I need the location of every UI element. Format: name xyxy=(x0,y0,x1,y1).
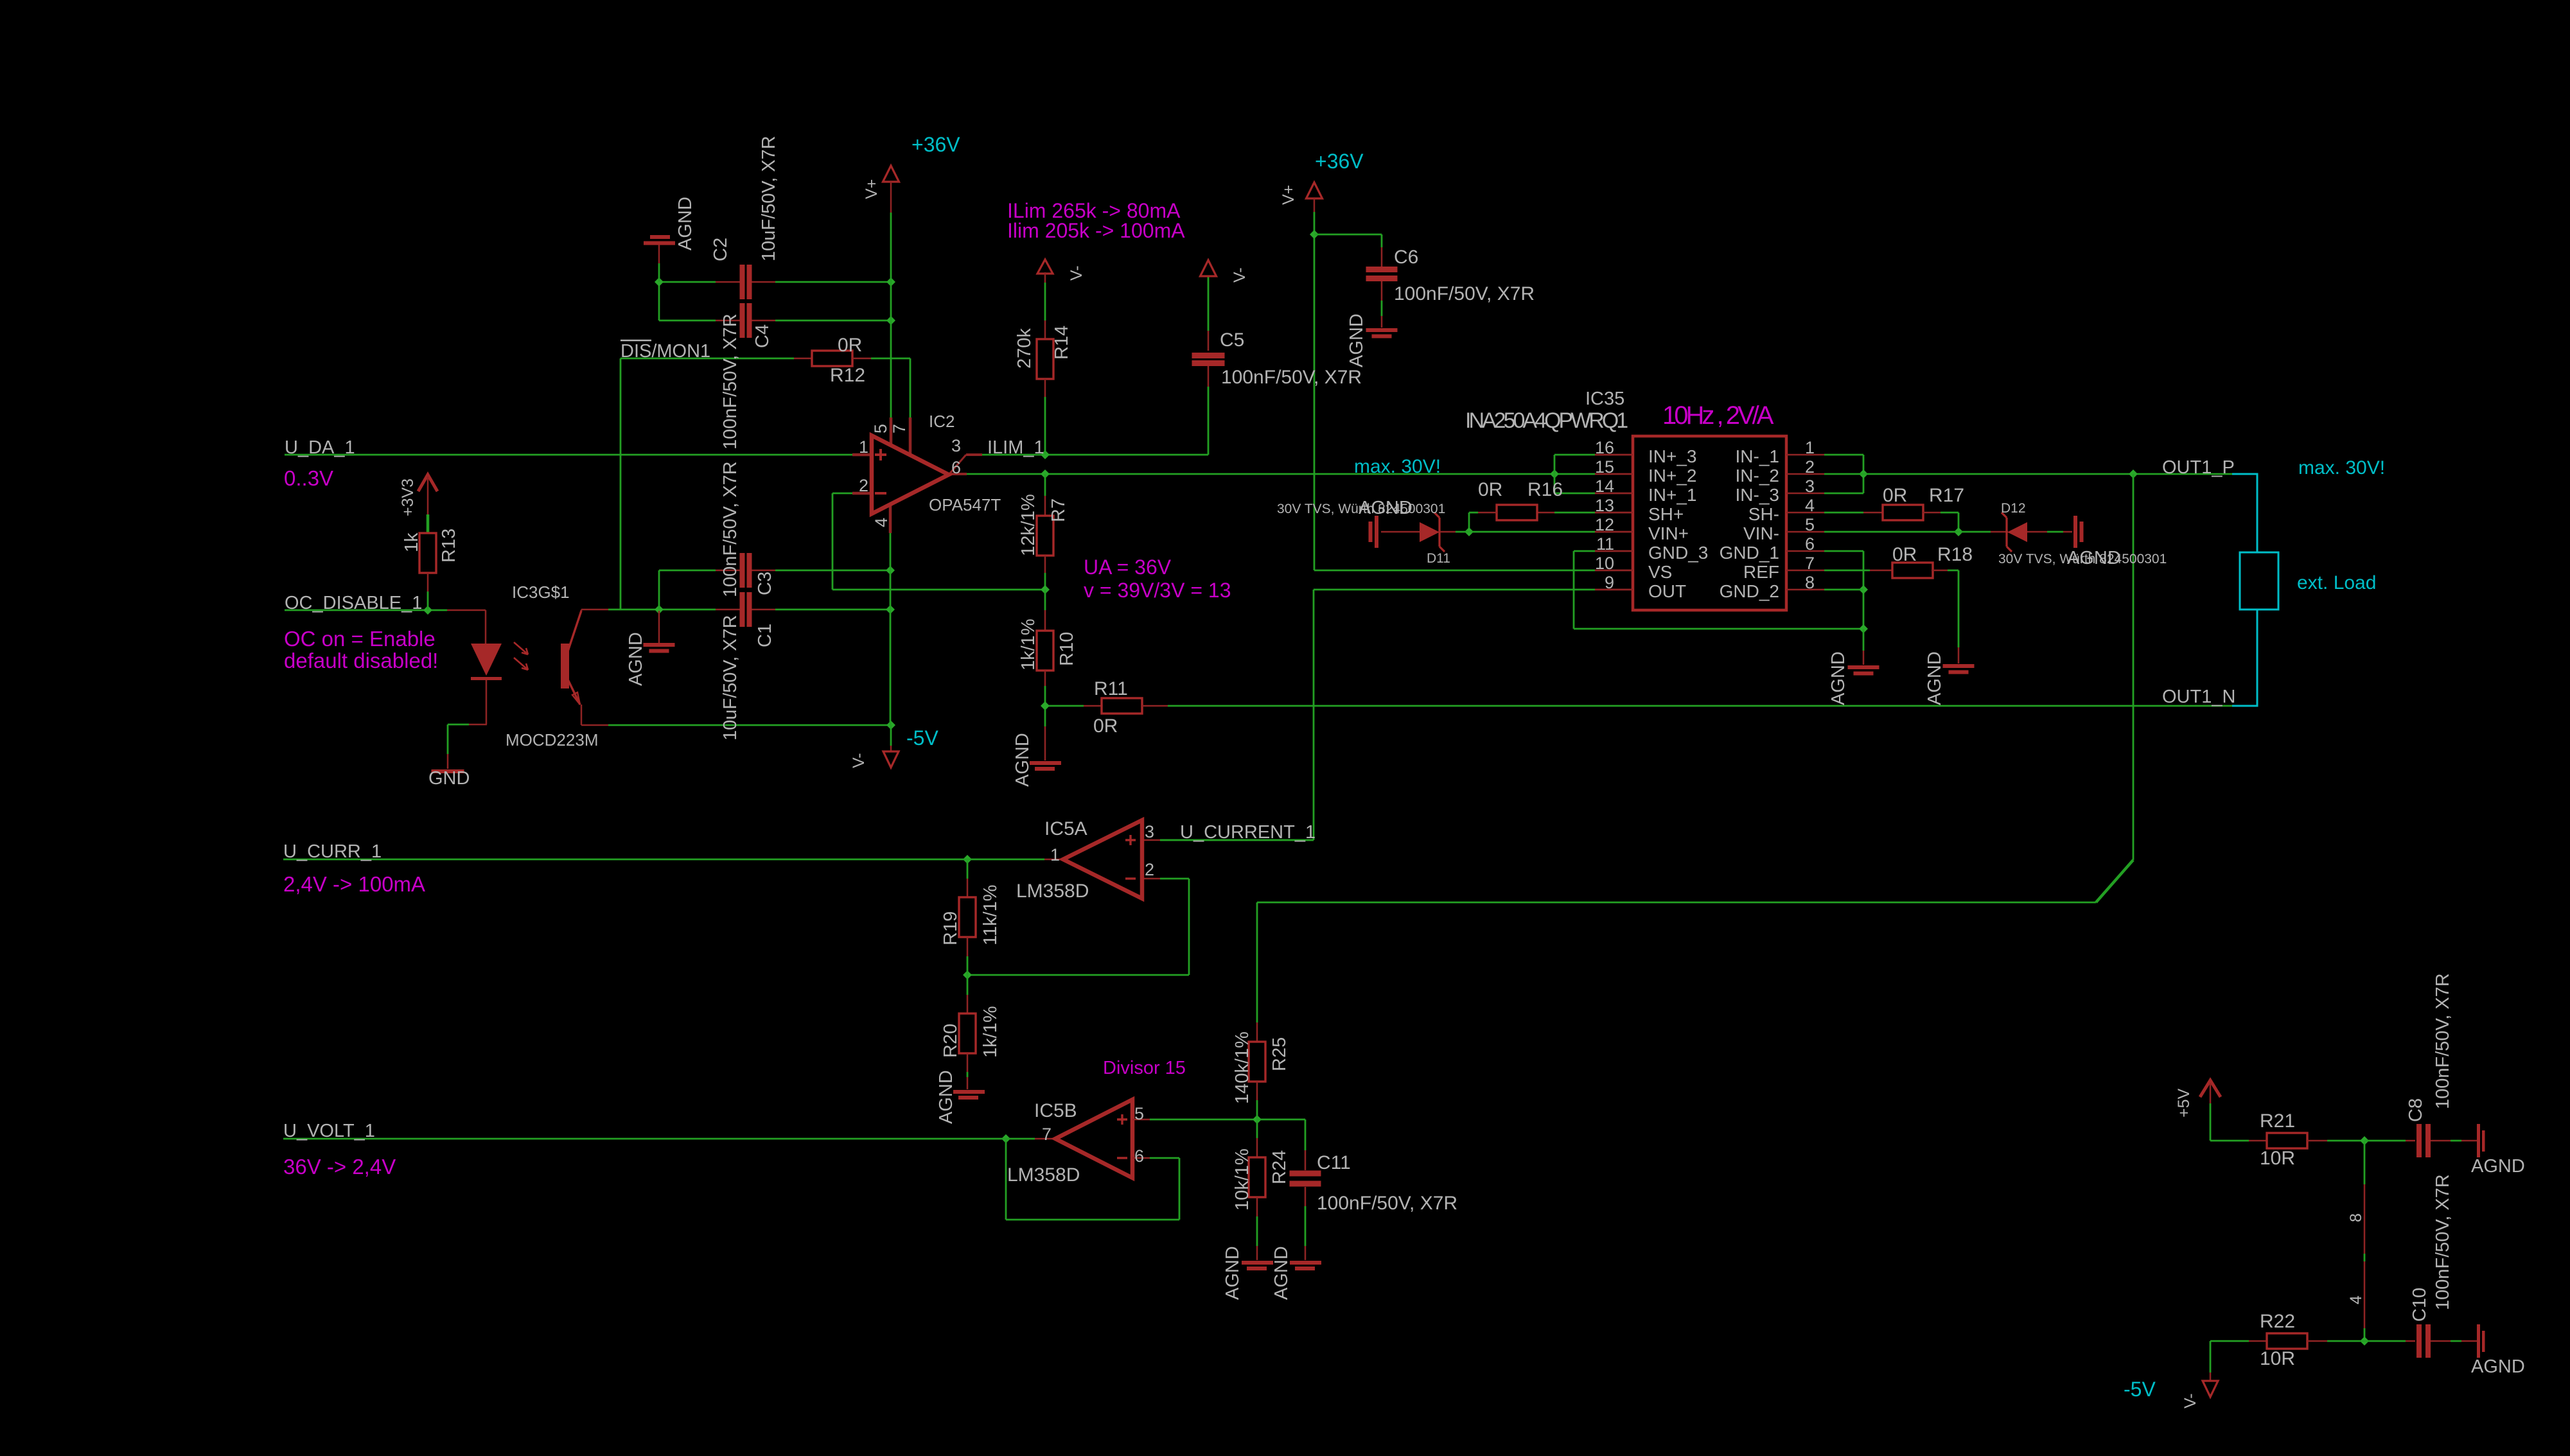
svg-text:R21: R21 xyxy=(2260,1110,2295,1132)
svg-text:IN-_3: IN-_3 xyxy=(1736,485,1779,505)
svg-text:3: 3 xyxy=(1805,477,1815,496)
svg-text:AGND: AGND xyxy=(2067,548,2121,568)
svg-text:1k/1%: 1k/1% xyxy=(980,1006,1001,1058)
svg-text:100nF/50V, X7R: 100nF/50V, X7R xyxy=(2433,1174,2453,1310)
svg-text:9: 9 xyxy=(1605,573,1614,592)
svg-text:R10: R10 xyxy=(1057,632,1077,666)
svg-text:15: 15 xyxy=(1595,457,1614,477)
svg-text:1: 1 xyxy=(859,437,868,457)
svg-text:100nF/50V, X7R: 100nF/50V, X7R xyxy=(720,461,741,597)
svg-text:14: 14 xyxy=(1595,477,1614,496)
svg-text:IN-_1: IN-_1 xyxy=(1736,446,1779,466)
svg-text:LM358D: LM358D xyxy=(1007,1164,1080,1186)
svg-text:V-: V- xyxy=(1068,265,1086,281)
svg-text:AGND: AGND xyxy=(1359,498,1413,518)
svg-text:1k/1%: 1k/1% xyxy=(1018,618,1039,671)
svg-text:-5V: -5V xyxy=(2124,1378,2156,1401)
svg-text:100nF/50V, X7R: 100nF/50V, X7R xyxy=(1221,367,1362,388)
svg-text:C6: C6 xyxy=(1394,247,1418,268)
svg-text:R25: R25 xyxy=(1269,1037,1290,1071)
svg-text:V-: V- xyxy=(1231,267,1249,283)
svg-text:0R: 0R xyxy=(1093,715,1118,737)
svg-text:10uF/50V, X7R: 10uF/50V, X7R xyxy=(720,615,741,741)
svg-text:OUT: OUT xyxy=(1648,581,1686,601)
svg-text:SH+: SH+ xyxy=(1648,504,1684,524)
svg-text:11k/1%: 11k/1% xyxy=(980,884,1001,945)
svg-text:U_DA_1: U_DA_1 xyxy=(285,437,355,458)
svg-text:36V -> 2,4V: 36V -> 2,4V xyxy=(283,1155,396,1179)
svg-text:1: 1 xyxy=(1050,845,1060,864)
svg-text:GND_1: GND_1 xyxy=(1720,543,1779,563)
svg-text:VIN+: VIN+ xyxy=(1648,523,1689,543)
svg-text:AGND: AGND xyxy=(2471,1156,2525,1177)
svg-text:IN+_2: IN+_2 xyxy=(1648,466,1697,486)
svg-text:3: 3 xyxy=(951,436,961,455)
svg-text:+36V: +36V xyxy=(1315,150,1364,173)
svg-text:U_CURR_1: U_CURR_1 xyxy=(283,841,382,862)
svg-text:V-: V- xyxy=(2181,1393,2199,1408)
svg-text:4: 4 xyxy=(1805,496,1815,515)
svg-text:R24: R24 xyxy=(1269,1150,1290,1184)
svg-text:0R: 0R xyxy=(1892,544,1917,565)
svg-text:12: 12 xyxy=(1595,515,1614,534)
svg-text:11: 11 xyxy=(1596,534,1614,554)
svg-text:IC5B: IC5B xyxy=(1034,1100,1077,1121)
svg-text:IC3G$1: IC3G$1 xyxy=(512,583,570,602)
svg-text:R11: R11 xyxy=(1094,678,1128,699)
svg-text:V+: V+ xyxy=(863,179,881,199)
svg-text:5: 5 xyxy=(1805,515,1815,534)
svg-text:C5: C5 xyxy=(1220,329,1244,351)
svg-text:10R: 10R xyxy=(2260,1348,2295,1369)
svg-text:R22: R22 xyxy=(2260,1311,2295,1332)
svg-text:D11: D11 xyxy=(1427,551,1450,566)
svg-text:6: 6 xyxy=(1805,534,1815,554)
svg-text:AGND: AGND xyxy=(675,197,696,250)
svg-text:8: 8 xyxy=(2347,1213,2365,1222)
svg-text:-5V: -5V xyxy=(906,726,938,750)
svg-text:R14: R14 xyxy=(1052,326,1072,360)
svg-text:U_CURRENT_1: U_CURRENT_1 xyxy=(1180,822,1316,843)
svg-text:3: 3 xyxy=(1145,822,1154,841)
svg-text:IC2: IC2 xyxy=(929,412,955,431)
svg-text:R7: R7 xyxy=(1048,498,1069,522)
svg-text:7: 7 xyxy=(1042,1125,1052,1144)
svg-text:AGND: AGND xyxy=(1012,733,1033,787)
svg-text:R13: R13 xyxy=(439,529,459,563)
svg-text:2: 2 xyxy=(1805,457,1815,477)
svg-text:C11: C11 xyxy=(1317,1152,1351,1173)
svg-text:7: 7 xyxy=(1805,554,1815,573)
svg-text:5: 5 xyxy=(871,424,890,434)
svg-text:C10: C10 xyxy=(2409,1288,2430,1322)
svg-text:0R: 0R xyxy=(838,335,862,356)
svg-text:C4: C4 xyxy=(752,324,773,348)
svg-text:IN+_3: IN+_3 xyxy=(1648,446,1697,466)
svg-text:AGND: AGND xyxy=(936,1070,956,1124)
svg-text:13: 13 xyxy=(1595,496,1614,515)
svg-text:AGND: AGND xyxy=(1828,651,1849,705)
svg-text:10k/1%: 10k/1% xyxy=(1232,1148,1253,1211)
svg-text:C2: C2 xyxy=(710,238,731,261)
svg-text:IC5A: IC5A xyxy=(1044,818,1087,839)
svg-text:max. 30V!: max. 30V! xyxy=(2298,457,2385,478)
svg-text:6: 6 xyxy=(1134,1146,1144,1166)
svg-text:OC_DISABLE_1: OC_DISABLE_1 xyxy=(285,593,422,613)
svg-text:LM358D: LM358D xyxy=(1016,881,1089,902)
svg-text:IC35: IC35 xyxy=(1585,389,1624,409)
svg-text:10Hz , 2V/A: 10Hz , 2V/A xyxy=(1662,401,1774,430)
svg-text:SH-: SH- xyxy=(1748,504,1779,524)
svg-text:ILIM_1: ILIM_1 xyxy=(987,437,1044,458)
svg-text:270k: 270k xyxy=(1014,328,1035,369)
svg-text:AGND: AGND xyxy=(1222,1246,1243,1300)
svg-text:1: 1 xyxy=(1805,438,1815,457)
svg-text:0R: 0R xyxy=(1478,479,1502,500)
svg-text:AGND: AGND xyxy=(1346,313,1367,367)
svg-text:R16: R16 xyxy=(1527,479,1563,500)
svg-text:GND: GND xyxy=(428,768,470,789)
svg-text:7: 7 xyxy=(890,424,909,434)
svg-text:2: 2 xyxy=(859,476,868,495)
svg-text:16: 16 xyxy=(1595,438,1614,457)
svg-text:VS: VS xyxy=(1648,562,1672,582)
svg-text:R18: R18 xyxy=(1937,544,1973,565)
svg-text:100nF/50V, X7R: 100nF/50V, X7R xyxy=(1317,1193,1457,1214)
svg-text:AGND: AGND xyxy=(1271,1246,1292,1300)
svg-text:AGND: AGND xyxy=(626,632,646,686)
svg-text:MOCD223M: MOCD223M xyxy=(506,730,598,750)
svg-text:4: 4 xyxy=(2347,1295,2365,1304)
svg-text:GND_2: GND_2 xyxy=(1720,581,1779,601)
svg-text:max. 30V!: max. 30V! xyxy=(1354,456,1441,477)
svg-text:2,4V -> 100mA: 2,4V -> 100mA xyxy=(283,872,425,896)
svg-text:2: 2 xyxy=(1145,860,1154,879)
svg-text:R19: R19 xyxy=(940,911,961,945)
svg-text:8: 8 xyxy=(1805,573,1815,592)
svg-text:ext. Load: ext. Load xyxy=(2297,572,2376,593)
svg-text:U_VOLT_1: U_VOLT_1 xyxy=(283,1121,375,1141)
svg-text:OUT1_P: OUT1_P xyxy=(2162,457,2235,478)
svg-text:Divisor 15: Divisor 15 xyxy=(1103,1058,1186,1078)
svg-text:IN+_1: IN+_1 xyxy=(1648,485,1697,505)
svg-text:10uF/50V, X7R: 10uF/50V, X7R xyxy=(759,136,779,261)
svg-text:INA250A4QPWRQ1: INA250A4QPWRQ1 xyxy=(1465,408,1628,433)
svg-text:Ilim 205k -> 100mA: Ilim 205k -> 100mA xyxy=(1007,219,1185,242)
svg-text:C3: C3 xyxy=(755,572,775,595)
svg-text:v = 39V/3V = 13: v = 39V/3V = 13 xyxy=(1084,579,1231,602)
svg-text:AGND: AGND xyxy=(1924,651,1945,705)
svg-text:DIS/MON1: DIS/MON1 xyxy=(620,341,710,362)
svg-text:140k/1%: 140k/1% xyxy=(1232,1031,1253,1104)
svg-text:0R: 0R xyxy=(1883,485,1907,506)
svg-text:VIN-: VIN- xyxy=(1743,523,1779,543)
svg-text:V-: V- xyxy=(850,753,868,768)
svg-text:IN-_2: IN-_2 xyxy=(1736,466,1779,486)
svg-text:AGND: AGND xyxy=(2471,1356,2525,1377)
svg-text:OPA547T: OPA547T xyxy=(929,495,1001,514)
svg-text:0..3V: 0..3V xyxy=(284,466,333,490)
svg-text:+3V3: +3V3 xyxy=(399,478,417,516)
svg-text:100nF/50V, X7R: 100nF/50V, X7R xyxy=(720,313,741,450)
svg-text:+36V: +36V xyxy=(911,133,960,156)
svg-text:4: 4 xyxy=(872,518,891,527)
svg-text:+5V: +5V xyxy=(2175,1088,2193,1118)
svg-text:R17: R17 xyxy=(1929,485,1964,506)
svg-text:12k/1%: 12k/1% xyxy=(1018,494,1039,556)
svg-text:D12: D12 xyxy=(2001,501,2026,516)
svg-text:OC on = Enable: OC on = Enable xyxy=(284,627,436,651)
svg-text:10: 10 xyxy=(1595,554,1614,573)
svg-text:R12: R12 xyxy=(830,365,865,386)
svg-text:default disabled!: default disabled! xyxy=(284,649,438,672)
svg-text:GND_3: GND_3 xyxy=(1648,543,1708,563)
svg-text:100nF/50V, X7R: 100nF/50V, X7R xyxy=(1394,283,1535,304)
svg-text:OUT1_N: OUT1_N xyxy=(2162,687,2235,707)
svg-text:R20: R20 xyxy=(940,1024,961,1058)
svg-text:C1: C1 xyxy=(755,624,775,647)
svg-text:100nF/50V, X7R: 100nF/50V, X7R xyxy=(2433,973,2453,1109)
svg-text:6: 6 xyxy=(951,458,961,477)
svg-text:1k: 1k xyxy=(401,532,422,552)
svg-text:5: 5 xyxy=(1134,1104,1144,1123)
svg-text:10R: 10R xyxy=(2260,1148,2295,1169)
svg-text:UA = 36V: UA = 36V xyxy=(1084,556,1172,579)
svg-text:REF: REF xyxy=(1743,562,1779,582)
svg-text:V+: V+ xyxy=(1280,185,1298,205)
svg-text:C8: C8 xyxy=(2406,1098,2426,1122)
